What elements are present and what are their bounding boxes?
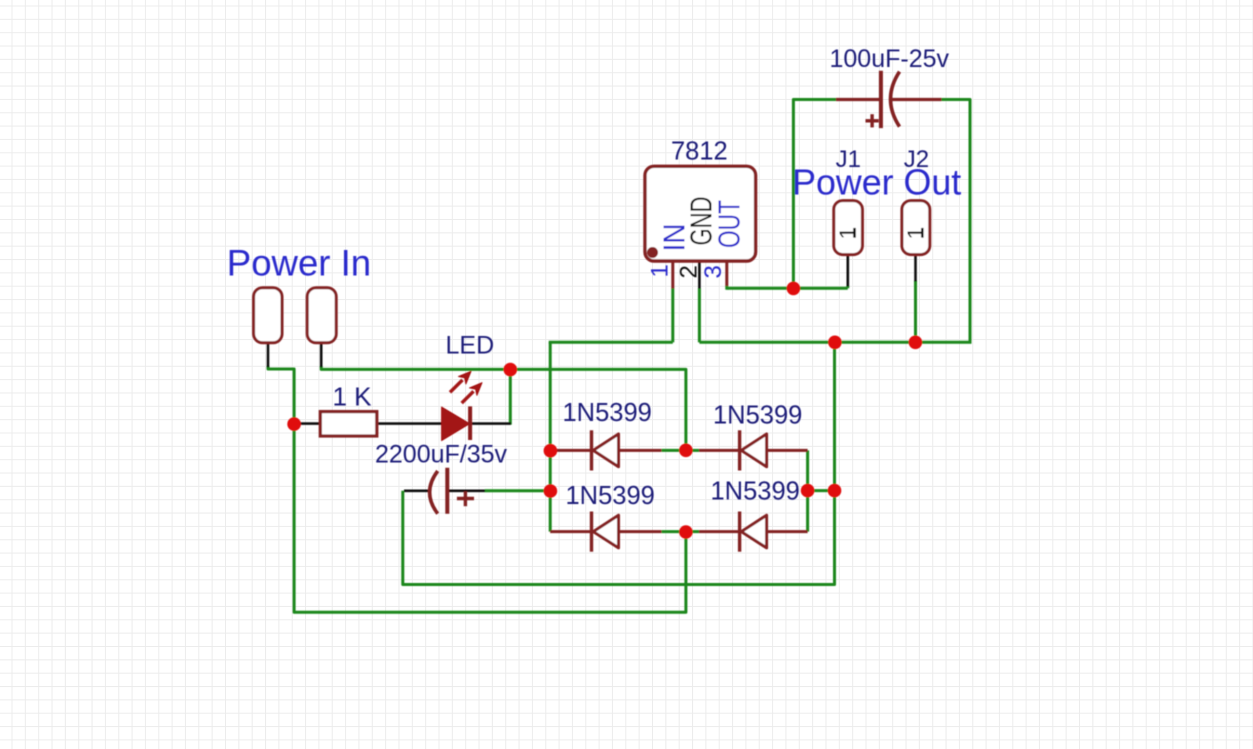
svg-text:1: 1 [902, 227, 928, 240]
svg-text:1N5399: 1N5399 [566, 482, 655, 510]
svg-text:7812: 7812 [671, 138, 728, 166]
svg-text:2: 2 [676, 265, 703, 278]
svg-text:1N5399: 1N5399 [713, 402, 802, 430]
svg-text:1: 1 [647, 264, 674, 277]
svg-text:Power In: Power In [227, 243, 371, 284]
svg-text:2200uF/35v: 2200uF/35v [375, 441, 508, 469]
svg-text:1 K: 1 K [333, 381, 373, 411]
svg-text:100uF-25v: 100uF-25v [830, 45, 950, 73]
svg-text:LED: LED [446, 332, 495, 360]
svg-text:Power Out: Power Out [792, 163, 961, 203]
svg-text:1: 1 [835, 227, 861, 240]
svg-text:1N5399: 1N5399 [711, 478, 800, 506]
svg-text:OUT: OUT [712, 200, 747, 248]
svg-text:1N5399: 1N5399 [563, 399, 652, 427]
svg-text:3: 3 [700, 265, 727, 278]
